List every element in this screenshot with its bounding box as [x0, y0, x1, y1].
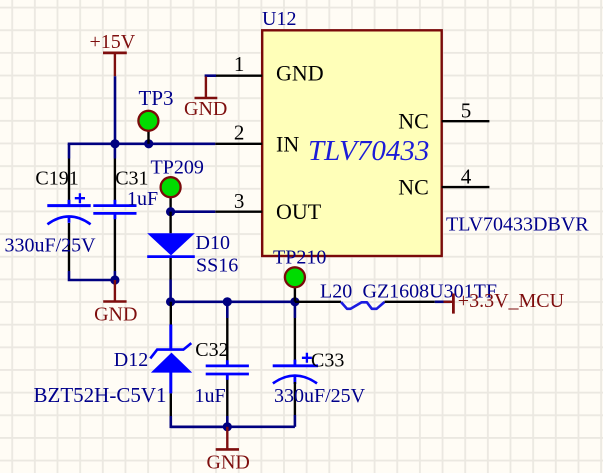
- wire D12 to bottom net: [171, 416, 228, 427]
- pin 4 NC: [398, 165, 489, 200]
- svg-text:GND: GND: [94, 304, 137, 326]
- node junction C32/bottom: [223, 422, 232, 431]
- pin 2 IN: [215, 120, 299, 156]
- svg-text:+3.3V_MCU: +3.3V_MCU: [458, 290, 565, 312]
- svg-text:1: 1: [234, 52, 245, 76]
- node junction caps/GND: [110, 275, 119, 284]
- IC U12 TLV70433 body: [262, 30, 442, 256]
- svg-text:BZT52H-C5V1: BZT52H-C5V1: [34, 383, 167, 407]
- svg-text:5: 5: [461, 99, 472, 123]
- svg-text:1uF: 1uF: [195, 385, 226, 407]
- svg-text:C191: C191: [35, 167, 78, 189]
- wire output bus row: [171, 300, 295, 303]
- svg-text:TLV70433DBVR: TLV70433DBVR: [446, 214, 589, 236]
- wire +15V down to IN net: [114, 76, 117, 144]
- svg-text:NC: NC: [398, 174, 429, 199]
- svg-text:GND: GND: [276, 60, 324, 85]
- test point TP210: [273, 246, 326, 302]
- pin 5 NC: [398, 99, 489, 134]
- svg-text:SS16: SS16: [196, 255, 238, 277]
- svg-text:U12: U12: [262, 8, 296, 30]
- svg-text:GND: GND: [207, 452, 250, 473]
- svg-text:L20: L20: [320, 280, 352, 302]
- pin 3 OUT: [215, 189, 322, 224]
- svg-text:4: 4: [461, 165, 472, 189]
- svg-text:D10: D10: [196, 232, 230, 254]
- node junction D10/bus: [166, 297, 175, 306]
- diode D12 zener BZT52H-C5V1: [34, 302, 193, 416]
- svg-text:TP3: TP3: [139, 86, 174, 110]
- svg-text:OUT: OUT: [276, 199, 322, 224]
- designator U12: [262, 8, 296, 30]
- svg-text:C33: C33: [311, 349, 344, 371]
- svg-text:TP210: TP210: [273, 246, 326, 268]
- svg-text:C32: C32: [195, 339, 228, 361]
- capacitor C191: [5, 159, 97, 272]
- capacitor C32: [195, 302, 249, 427]
- wire IN net horizontal: [68, 143, 216, 146]
- ground GND at pin 1: [184, 76, 227, 121]
- ground GND left branch: [94, 280, 137, 326]
- node junction +15V/IN: [110, 139, 119, 148]
- svg-text:TLV70433: TLV70433: [308, 135, 429, 167]
- svg-text:C31: C31: [115, 167, 148, 189]
- svg-text:NC: NC: [398, 108, 429, 133]
- node junction C32/bus: [223, 297, 232, 306]
- node junction TP210/C33/bus: [290, 297, 299, 306]
- svg-text:IN: IN: [276, 132, 299, 157]
- diode D10 SS16: [147, 212, 238, 280]
- wire C191 branch left vertical: [69, 144, 115, 280]
- inductor L20: [295, 280, 497, 309]
- part number TLV70433DBVR: [446, 214, 589, 236]
- svg-text:+15V: +15V: [90, 31, 136, 53]
- svg-text:TP209: TP209: [151, 157, 204, 179]
- wire inductor to power port: [435, 300, 451, 303]
- ground GND bottom: [207, 427, 250, 473]
- svg-text:3: 3: [234, 189, 245, 213]
- svg-text:D12: D12: [114, 349, 148, 371]
- test point TP3: [138, 86, 173, 144]
- test point TP209: [151, 157, 204, 212]
- power +15V: [90, 31, 136, 76]
- node junction OUT/TP209/D10: [166, 207, 175, 216]
- node junction TP3/IN: [144, 139, 153, 148]
- svg-text:330uF/25V: 330uF/25V: [274, 385, 366, 407]
- capacitor C33: [273, 302, 366, 427]
- svg-text:1uF: 1uF: [127, 188, 158, 210]
- svg-text:2: 2: [234, 120, 245, 144]
- pin 1 GND: [215, 52, 323, 85]
- svg-text:GND: GND: [184, 98, 227, 120]
- wire bottom net: [171, 425, 295, 428]
- capacitor C31: [93, 159, 158, 272]
- value label TLV70433: [308, 135, 429, 167]
- power +3.3V_MCU: [444, 290, 565, 314]
- wire OUT net: [171, 210, 216, 213]
- wire C31 branch vertical: [114, 144, 117, 280]
- svg-text:330uF/25V: 330uF/25V: [5, 235, 97, 257]
- wire D10 to bus: [169, 280, 172, 302]
